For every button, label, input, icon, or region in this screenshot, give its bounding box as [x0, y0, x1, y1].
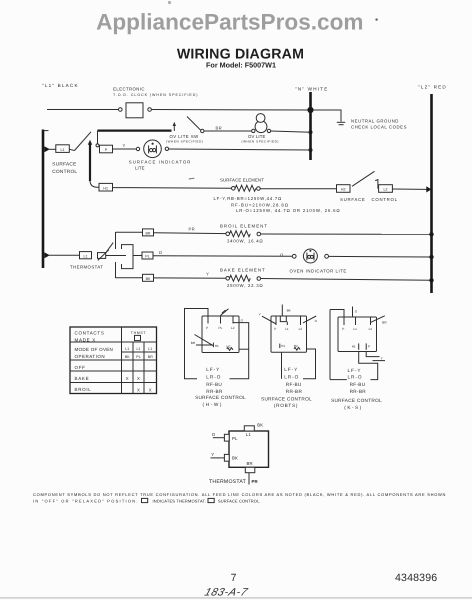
- svg-text:O: O: [280, 253, 284, 258]
- wire lamp to N bus row3: [169, 149, 311, 150]
- svg-text:CONTROL: CONTROL: [52, 169, 77, 174]
- svg-text:L2: L2: [231, 326, 235, 330]
- svg-text:SURFACE CONTROL: SURFACE CONTROL: [195, 395, 246, 400]
- svg-text:L1: L1: [137, 347, 141, 351]
- table header MODE OF OVEN OPERATION: [75, 347, 114, 359]
- wire selector to BK terminal: [116, 277, 143, 279]
- svg-text:(ROBTS): (ROBTS): [274, 403, 298, 408]
- svg-text:L1: L1: [353, 327, 357, 331]
- svg-text:PL: PL: [232, 436, 238, 441]
- svg-text:(WHEN SPECIFIED): (WHEN SPECIFIED): [166, 140, 204, 144]
- wire H1 to surface element: [113, 187, 232, 190]
- caption (ROBTS): [261, 367, 312, 408]
- svg-text:4348396: 4348396: [395, 572, 437, 584]
- watermark AppliancePartsPros.com: [96, 9, 363, 34]
- svg-text:BR: BR: [247, 461, 253, 466]
- svg-text:BK: BK: [125, 355, 130, 359]
- svg-text:INDICATES THERMOSTAT.: INDICATES THERMOSTAT.: [153, 498, 207, 503]
- bus L1 black (left): [43, 130, 49, 269]
- svg-text:L2: L2: [299, 327, 303, 331]
- svg-text:MADE X: MADE X: [75, 337, 96, 342]
- svg-text:BR: BR: [382, 320, 387, 324]
- svg-text:BR: BR: [148, 355, 153, 359]
- thermostat detail box: [229, 422, 269, 467]
- wire clock to N bus: [151, 109, 310, 112]
- thermostat contact: [98, 243, 114, 261]
- wire H1 drop (ROBTS): [281, 352, 283, 379]
- svg-text:IN "OFF" OR "RELAXED" POSITION: IN "OFF" OR "RELAXED" POSITION.: [33, 498, 139, 503]
- pin BR thermostat detail: [245, 461, 258, 485]
- svg-text:3400W, 16.4Ω: 3400W, 16.4Ω: [227, 239, 263, 244]
- pin H1 (ROBTS): [280, 344, 286, 349]
- svg-text:LF-Y: LF-Y: [284, 367, 298, 372]
- svg-text:OFF: OFF: [75, 365, 86, 370]
- svg-text:NEUTRAL GROUND: NEUTRAL GROUND: [351, 118, 399, 123]
- svg-text:BK: BK: [146, 277, 151, 281]
- svg-text:2500W, 22.3Ω: 2500W, 22.3Ω: [227, 283, 263, 288]
- svg-text:P: P: [368, 345, 370, 349]
- svg-text:LF-Y: LF-Y: [348, 368, 362, 373]
- scan edge line bottom: [0, 597, 472, 598]
- wire H2 output (ROBTS): [303, 349, 316, 379]
- wire broil to L2 bus: [261, 233, 432, 235]
- svg-text:THMST: THMST: [131, 331, 147, 335]
- lamp OVEN INDICATOR LITE: [290, 249, 347, 274]
- wire row2 heavy (oven lite feed): [98, 131, 172, 144]
- switch blade BR (K-S): [371, 316, 388, 325]
- svg-text:P: P: [342, 327, 344, 331]
- pin H2 (ROBTS): [294, 344, 300, 350]
- svg-text:H1: H1: [352, 345, 356, 349]
- svg-text:RF-BU: RF-BU: [286, 382, 302, 387]
- thermostat T1 terminal: [70, 252, 103, 270]
- svg-text:PR: PR: [252, 479, 259, 484]
- svg-text:Y: Y: [123, 143, 126, 148]
- svg-text:L1: L1: [285, 327, 289, 331]
- pin H1 with BR blade (H-W): [191, 335, 219, 348]
- svg-text:L1: L1: [246, 432, 252, 437]
- svg-text:LF-Y,RB-BR=1250W,44.7Ω: LF-Y,RB-BR=1250W,44.7Ω: [214, 196, 283, 201]
- svg-text:T.O.D. CLOCK (WHEN SPECIFIED): T.O.D. CLOCK (WHEN SPECIFIED): [113, 93, 198, 97]
- svg-text:SURFACE: SURFACE: [340, 197, 366, 202]
- wire H1 path (K-S): [359, 352, 378, 380]
- svg-text:BR: BR: [216, 125, 222, 130]
- wire L1 bus to thermostat: [44, 252, 79, 258]
- svg-text:OPERATION: OPERATION: [75, 354, 106, 359]
- wire lamp to N bus: [271, 131, 311, 132]
- svg-text:THERMOSTAT: THERMOSTAT: [209, 479, 247, 485]
- switch blade right (ROBTS): [303, 316, 318, 323]
- svg-text:L2: L2: [369, 327, 373, 331]
- svg-text:H1: H1: [103, 186, 108, 190]
- svg-text:X: X: [126, 376, 129, 381]
- svg-text:Y: Y: [211, 452, 214, 457]
- wire hook at L2 terminal: [375, 180, 378, 189]
- switch blade surface control: [352, 171, 375, 186]
- svg-text:H2: H2: [341, 188, 346, 192]
- wire contact to selector: [106, 255, 126, 257]
- value label surface element ratings: [214, 196, 341, 213]
- svg-text:L1: L1: [148, 347, 152, 351]
- terminal BK thermostat: [143, 274, 154, 281]
- svg-text:PL: PL: [145, 255, 149, 259]
- resistor bake element: [220, 268, 266, 288]
- terminal H1 surface control: [99, 183, 113, 191]
- svg-text:"L1" BLACK: "L1" BLACK: [42, 83, 79, 88]
- surface control U4 (K-S) box: [330, 310, 377, 380]
- table header CONTACTS MADE X: [75, 331, 105, 343]
- note line 2: [33, 498, 261, 503]
- switch surface control L1: [44, 132, 91, 174]
- junction row1/N: [307, 107, 313, 113]
- svg-text:"L2" RED: "L2" RED: [418, 85, 447, 90]
- surface control U2 (H-W) box: [185, 309, 240, 379]
- svg-text:Y: Y: [206, 272, 209, 277]
- scan dot artifact 2: [375, 18, 377, 20]
- svg-text:P: P: [274, 327, 276, 331]
- terminal L2 surface control: [340, 185, 398, 203]
- pin P (K-S): [366, 343, 370, 349]
- resistor broil element: [220, 224, 268, 244]
- wire L1 feed to clock: [47, 109, 119, 111]
- svg-text:OV LITE SW: OV LITE SW: [170, 134, 200, 139]
- neutral ground symbol: [314, 110, 407, 130]
- indicator circuit P box: [96, 144, 113, 153]
- junction ovenind/L2: [429, 255, 433, 259]
- svg-text:PL: PL: [219, 326, 223, 330]
- pin BK thermostat detail: [211, 452, 239, 461]
- wire P to lamp: [113, 148, 137, 150]
- wire bake to L2 bus: [261, 279, 432, 281]
- table row BAKE: [75, 376, 141, 381]
- wire oven indicator to L2 bus: [329, 255, 432, 258]
- wire O output (H-W): [230, 318, 249, 378]
- svg-text:(K-S): (K-S): [344, 405, 362, 410]
- scan dot artifact: [168, 1, 171, 4]
- svg-text:O: O: [159, 250, 163, 255]
- svg-text:BROIL ELEMENT: BROIL ELEMENT: [220, 224, 268, 229]
- svg-text:H1: H1: [215, 344, 219, 348]
- svg-text:LR-O: LR-O: [284, 374, 299, 379]
- svg-text:183-A-7: 183-A-7: [203, 587, 250, 599]
- svg-text:MODE OF OVEN: MODE OF OVEN: [75, 347, 114, 352]
- wire selector to BR terminal: [116, 231, 143, 233]
- caption (K-S): [331, 368, 382, 410]
- svg-text:"N" WHITE: "N" WHITE: [295, 87, 328, 92]
- svg-text:LITE: LITE: [135, 166, 145, 171]
- svg-text:OV LITE: OV LITE: [248, 134, 266, 139]
- svg-text:RR-BR: RR-BR: [206, 389, 223, 394]
- bus L2 red: [430, 94, 433, 293]
- svg-text:BR: BR: [146, 232, 151, 236]
- wire Y output (K-S): [366, 352, 385, 361]
- svg-text:H1: H1: [281, 344, 285, 348]
- svg-text:X: X: [137, 387, 140, 392]
- svg-text:Y: Y: [259, 312, 261, 316]
- svg-text:OVEN INDICATOR LITE: OVEN INDICATOR LITE: [290, 269, 347, 274]
- lamp OV LITE: [242, 114, 280, 144]
- wire L2 box to L2 bus: [392, 186, 431, 192]
- svg-text:COMPONENT SYMBOLS DO NOT REFLE: COMPONENT SYMBOLS DO NOT REFLECT TRUE CO…: [33, 492, 446, 497]
- svg-text:LR-O: LR-O: [348, 374, 363, 379]
- svg-text:BR: BR: [191, 341, 196, 345]
- pin H1 (K-S): [352, 343, 359, 349]
- svg-text:BROIL: BROIL: [75, 387, 92, 392]
- table header THMST: [131, 331, 147, 341]
- svg-text:BK: BK: [232, 455, 238, 460]
- table row BROIL: [75, 387, 152, 392]
- svg-text:SURFACE CONTROL: SURFACE CONTROL: [261, 396, 312, 401]
- junction broil/L2: [429, 232, 433, 236]
- svg-text:P: P: [206, 326, 208, 330]
- svg-text:L1: L1: [84, 254, 88, 258]
- surface control feed bus H1: [88, 140, 99, 188]
- svg-text:CONTROL: CONTROL: [372, 197, 398, 202]
- svg-text:LF-Y: LF-Y: [206, 367, 220, 372]
- bus N white: [309, 92, 312, 160]
- svg-text:RR-BR: RR-BR: [350, 389, 367, 394]
- svg-text:Y: Y: [381, 356, 383, 360]
- thermostat selector: [116, 232, 143, 278]
- svg-text:RF-BU=2100W,28.8Ω: RF-BU=2100W,28.8Ω: [231, 202, 289, 207]
- svg-text:O: O: [212, 432, 216, 437]
- svg-text:X: X: [137, 376, 140, 381]
- junction bake/L2: [429, 278, 433, 282]
- table column heads L1/BK L1/PL L1/BR: [125, 347, 153, 359]
- terminal BR thermostat: [143, 229, 154, 236]
- svg-text:SURFACE CONTROL.: SURFACE CONTROL.: [218, 498, 261, 503]
- wire element to H2: [260, 188, 336, 190]
- clock U1 ELECTRONIC T.O.D. CLOCK: [113, 87, 198, 118]
- svg-text:RF-BU: RF-BU: [350, 382, 366, 387]
- caption (H-W): [195, 367, 246, 407]
- svg-text:BAKE: BAKE: [75, 376, 90, 381]
- terminal H2 surface control: [337, 185, 351, 193]
- svg-text:PR: PR: [189, 227, 195, 232]
- svg-text:L1: L1: [61, 148, 65, 152]
- svg-text:SURFACE CONTROL: SURFACE CONTROL: [331, 398, 382, 403]
- terminal PL thermostat: [142, 252, 153, 259]
- svg-text:LR-O=1250W, 44.7Ω OR 2100W, 26: LR-O=1250W, 44.7Ω OR 2100W, 26.6Ω: [236, 208, 341, 213]
- surface control U3 (ROBTS) box: [271, 305, 307, 353]
- svg-text:CONTACTS: CONTACTS: [75, 331, 105, 336]
- switch OV LITE SW: [166, 117, 204, 144]
- svg-text:SURFACE: SURFACE: [52, 161, 76, 166]
- svg-text:L1: L1: [125, 347, 129, 351]
- resistor surface element: [220, 178, 264, 192]
- svg-text:CHECK LOCAL CODES: CHECK LOCAL CODES: [351, 125, 407, 130]
- wire BR to lamp: [204, 130, 252, 132]
- wire PL to oven indicator: [153, 255, 292, 258]
- svg-text:LR-O: LR-O: [206, 374, 221, 379]
- scan artifact dash: [189, 177, 195, 180]
- svg-text:PL: PL: [136, 355, 140, 359]
- svg-text:BK: BK: [257, 422, 263, 427]
- svg-text:X: X: [149, 387, 152, 392]
- svg-text:(WHEN SPECIFIED): (WHEN SPECIFIED): [242, 140, 280, 144]
- svg-text:AppliancePartsPros.com: AppliancePartsPros.com: [96, 9, 363, 34]
- wire O input (K-S): [353, 307, 358, 318]
- svg-text:For Model: F5007W1: For Model: F5007W1: [206, 61, 276, 70]
- lamp SURFACE INDICATOR LITE: [129, 140, 192, 171]
- svg-text:ELECTRONIC: ELECTRONIC: [113, 87, 145, 92]
- table contacts-made chart: [70, 327, 157, 394]
- svg-text:SURFACE ELEMENT: SURFACE ELEMENT: [220, 178, 264, 183]
- wire BR to broil element: [154, 232, 228, 235]
- svg-text:SURFACE INDICATOR: SURFACE INDICATOR: [129, 159, 192, 164]
- svg-text:RF-BU: RF-BU: [206, 382, 222, 387]
- switch blade left (ROBTS): [259, 312, 276, 324]
- wire BK to bake element: [154, 277, 228, 279]
- junction row2/N: [309, 130, 313, 134]
- svg-text:BAKE ELEMENT: BAKE ELEMENT: [220, 268, 266, 273]
- junction row3/N: [309, 148, 313, 152]
- svg-text:RR-BR: RR-BR: [286, 389, 303, 394]
- svg-text:(H-W): (H-W): [203, 402, 224, 407]
- pin H2 (H-W): [227, 345, 233, 351]
- pin PL thermostat detail: [212, 432, 238, 441]
- svg-text:7: 7: [231, 572, 237, 584]
- svg-text:L2: L2: [384, 188, 388, 192]
- svg-text:THERMOSTAT: THERMOSTAT: [70, 265, 103, 270]
